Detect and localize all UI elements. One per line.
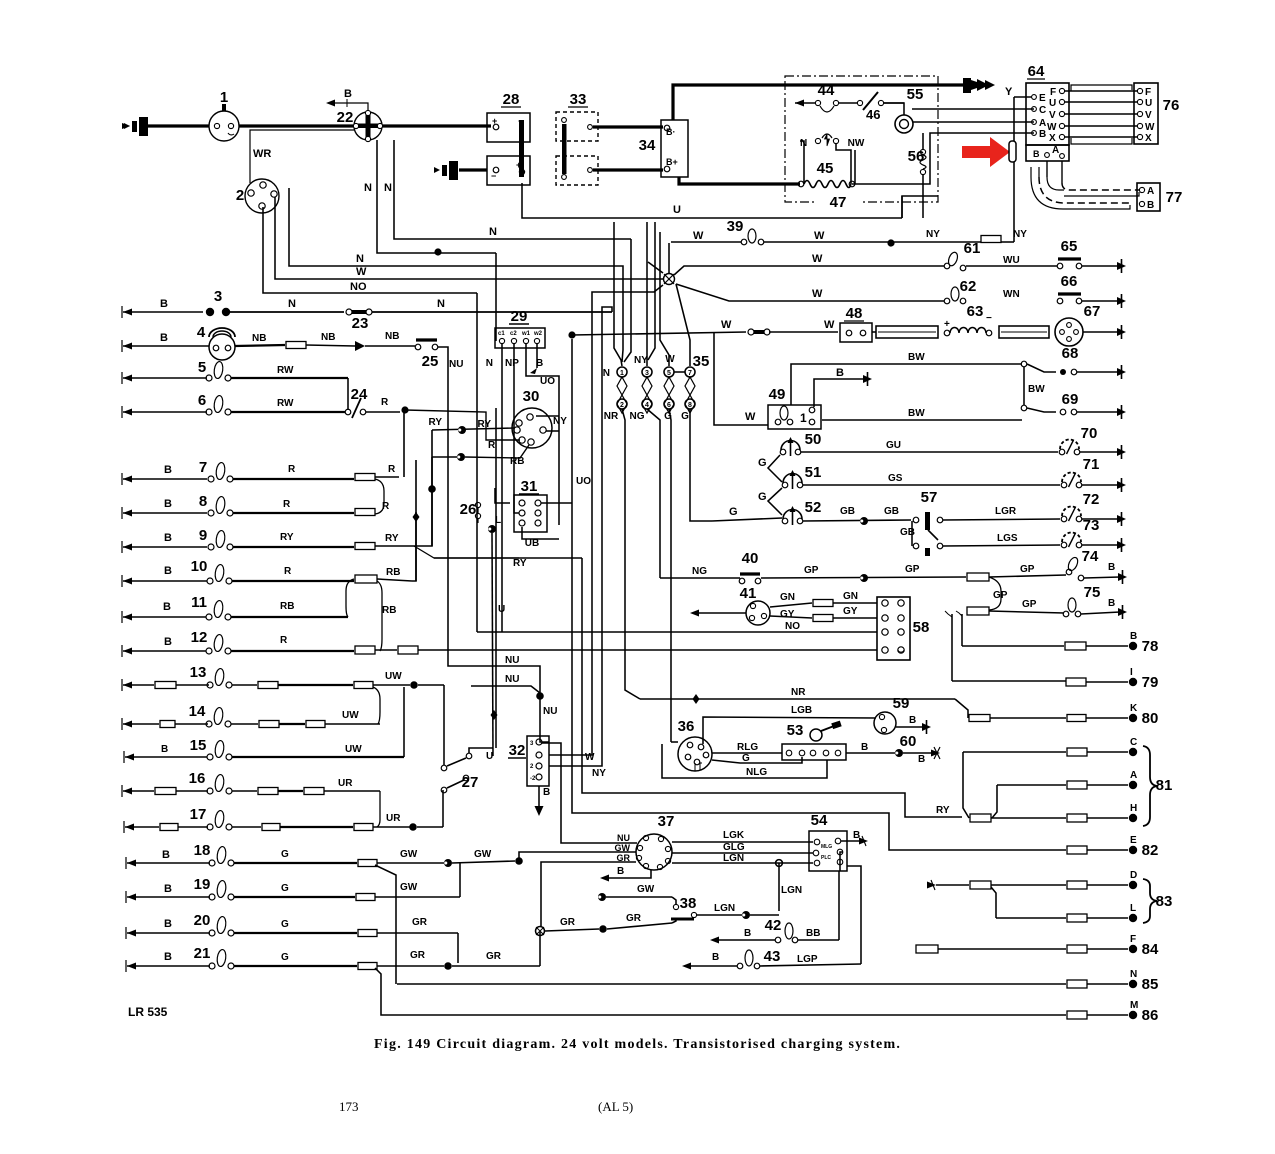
svg-text:W: W (814, 230, 825, 242)
svg-text:B: B (160, 298, 168, 310)
svg-text:2: 2 (236, 187, 244, 204)
svg-text:N: N (288, 298, 296, 310)
svg-text:B: B (163, 601, 171, 613)
svg-text:R: R (283, 499, 291, 510)
svg-text:W: W (585, 752, 595, 763)
terminal feed arrow battery lower (434, 167, 440, 173)
L terminal (488, 525, 496, 533)
svg-text:V: V (1049, 110, 1056, 121)
svg-text:c1: c1 (498, 331, 505, 337)
svg-text:UR: UR (386, 813, 401, 824)
wire RY to 30 (432, 428, 514, 430)
svg-text:RLG: RLG (737, 742, 758, 753)
row 81 C (963, 751, 1066, 753)
svg-text:36: 36 (678, 718, 695, 735)
svg-text:A: A (1130, 770, 1137, 781)
wire GP hooks (945, 611, 952, 617)
svg-text:6: 6 (667, 402, 671, 409)
svg-text:WR: WR (253, 148, 271, 160)
svg-text:W: W (1145, 122, 1155, 133)
76 pin V (1137, 111, 1142, 116)
fuse 39 (741, 239, 747, 245)
svg-text:W: W (665, 354, 675, 365)
wire LGR (943, 519, 1060, 520)
svg-text:GP: GP (1020, 564, 1035, 575)
svg-text:NB: NB (385, 331, 399, 342)
svg-text:49: 49 (769, 386, 786, 403)
RY riser (414, 430, 432, 546)
svg-text:NW: NW (848, 138, 865, 149)
svg-text:70: 70 (1081, 425, 1098, 442)
svg-text:NR: NR (791, 687, 806, 698)
svg-text:66: 66 (1061, 273, 1078, 290)
svg-text:54: 54 (811, 812, 828, 829)
svg-text:B: B (617, 866, 624, 877)
svg-text:74: 74 (1082, 548, 1099, 565)
svg-text:GN: GN (843, 591, 858, 602)
svg-text:U: U (486, 751, 493, 762)
svg-text:NO: NO (350, 281, 367, 293)
wire R stub (405, 410, 520, 440)
svg-text:RW: RW (277, 365, 294, 376)
svg-text:14: 14 (189, 703, 206, 720)
feed arrow top right (963, 78, 971, 93)
wire w1 from 29 (526, 344, 559, 525)
svg-text:35: 35 (693, 353, 710, 370)
svg-text:RB: RB (382, 605, 396, 616)
svg-text:F: F (1130, 934, 1136, 945)
wire GR into 37 (541, 862, 636, 926)
svg-text:48: 48 (846, 305, 863, 322)
svg-text:W: W (1047, 122, 1057, 133)
fuse GP (967, 573, 989, 581)
svg-text:MLG: MLG (821, 844, 832, 850)
svg-text:BW: BW (908, 408, 925, 419)
svg-text:BW: BW (908, 352, 925, 363)
row20-21 GR link (457, 933, 459, 963)
wire U riser at 902 (901, 196, 903, 218)
svg-text:NU: NU (449, 359, 463, 370)
svg-text:NY: NY (553, 416, 567, 427)
svg-text:B: B (1039, 129, 1046, 140)
svg-text:GW: GW (474, 849, 492, 860)
wire BW lower (822, 419, 1022, 421)
svg-text:GU: GU (886, 440, 901, 451)
riser 17 to 27 (442, 790, 444, 827)
svg-text:X: X (1145, 133, 1152, 144)
fuse GP 75 (967, 607, 989, 615)
wire left riser 85 (375, 865, 396, 984)
row 15 lamp (125, 754, 134, 761)
wire NU vertical from 25 (448, 362, 540, 693)
svg-text:B: B (164, 464, 172, 476)
wire main feed to switch 1 (140, 124, 209, 127)
svg-text:GR: GR (560, 917, 576, 928)
svg-text:GY: GY (780, 609, 795, 620)
switch 46 (857, 100, 862, 105)
G wire down to 36 (669, 409, 671, 742)
36 bracket wiring (671, 741, 678, 743)
row 62: wire W (676, 284, 944, 301)
svg-text:D: D (1130, 870, 1137, 881)
svg-text:86: 86 (1142, 1007, 1159, 1024)
NG wire down to row 40 (647, 409, 660, 578)
svg-text:NU: NU (505, 655, 519, 666)
row18-19 GW link (459, 863, 461, 897)
harness connector 76 (1134, 83, 1158, 144)
svg-text:40: 40 (742, 550, 759, 567)
svg-text:B: B (543, 787, 550, 798)
svg-text:B: B (164, 565, 172, 577)
svg-text:41: 41 (740, 585, 757, 602)
svg-text:LGS: LGS (997, 533, 1018, 544)
svg-text:7: 7 (199, 459, 207, 476)
row 19 lamp (127, 894, 136, 901)
GP branch curve down (989, 577, 1001, 610)
svg-text:F: F (1145, 87, 1151, 98)
wire N vertical to 29 (495, 253, 497, 341)
svg-text:N: N (486, 358, 493, 369)
svg-text:15: 15 (190, 737, 207, 754)
svg-text:NU: NU (505, 674, 519, 685)
wire NU into 37 (542, 743, 637, 843)
link pair3-pair4 (674, 371, 685, 373)
svg-text:B: B (712, 952, 719, 963)
junction block 58 (877, 597, 910, 660)
wires 64 to 76 (1064, 90, 1138, 92)
svg-text:GP: GP (993, 590, 1008, 601)
76 pin X (1137, 134, 1142, 139)
svg-text:L: L (1130, 903, 1136, 914)
screened cable left (876, 326, 938, 338)
svg-text:R: R (284, 566, 292, 577)
row 81 H RY fuse (970, 814, 991, 822)
svg-text:RB: RB (280, 601, 294, 612)
svg-text:w1: w1 (521, 331, 531, 337)
row 80 fuses (969, 715, 990, 722)
svg-text:G: G (281, 849, 289, 860)
svg-text:NY: NY (592, 768, 606, 779)
wire W to 49 (714, 332, 768, 425)
U line riser right (902, 196, 938, 218)
svg-text:R: R (488, 440, 496, 451)
svg-text:LGB: LGB (791, 705, 812, 716)
76 pin F (1137, 88, 1142, 93)
svg-text:U: U (673, 204, 681, 216)
RB riser drop (431, 457, 433, 489)
svg-text:W: W (812, 288, 823, 300)
svg-text:39: 39 (727, 218, 744, 235)
svg-text:RY: RY (513, 558, 527, 569)
row 18 lamp (127, 860, 136, 867)
svg-text:W: W (812, 253, 823, 265)
svg-text:G: G (742, 753, 750, 764)
row10-11 link (346, 579, 354, 617)
svg-text:58: 58 (913, 619, 930, 636)
svg-text:13: 13 (190, 664, 207, 681)
svg-text:R: R (388, 464, 396, 475)
svg-text:GS: GS (888, 473, 903, 484)
wire GY (770, 616, 812, 618)
svg-text:81: 81 (1156, 777, 1173, 794)
wire GN (770, 603, 812, 607)
wire GU (801, 451, 1058, 453)
row 83 L (996, 917, 1066, 919)
svg-text:B: B (164, 636, 172, 648)
76 pin U (1137, 99, 1142, 104)
svg-text:10: 10 (191, 558, 208, 575)
svg-text:8: 8 (199, 493, 207, 510)
svg-text:5: 5 (198, 359, 206, 376)
row 6 lamp (123, 409, 132, 416)
wire 22 to battery 28 (382, 124, 491, 127)
svg-text:37: 37 (658, 813, 675, 830)
svg-text:GR: GR (412, 917, 428, 928)
svg-text:H: H (1130, 803, 1137, 814)
svg-text:NG: NG (630, 411, 645, 422)
row 86 (375, 968, 1066, 1015)
battery 28 link bar (519, 120, 524, 177)
wire BW top (791, 364, 1022, 405)
svg-text:LGN: LGN (723, 853, 744, 864)
svg-text:UW: UW (385, 671, 402, 682)
dashed wire 64B to 77B outline (1039, 177, 1130, 203)
wire NO long (477, 631, 877, 633)
wire 13 row to 27 (443, 685, 445, 765)
row 3 switch (123, 309, 132, 316)
svg-text:2: 2 (620, 402, 624, 409)
svg-text:U: U (1049, 98, 1056, 109)
svg-text:W: W (356, 266, 367, 278)
svg-text:59: 59 (893, 695, 910, 712)
BB riser to 54 (838, 871, 840, 940)
battery 28 lower (487, 156, 530, 185)
svg-text:11: 11 (191, 594, 207, 611)
svg-text:34: 34 (639, 137, 656, 154)
wire W to fuse (572, 332, 746, 335)
wire GS (803, 484, 1060, 486)
svg-text:53: 53 (787, 722, 804, 739)
svg-text:18: 18 (194, 842, 211, 859)
svg-text:GY: GY (843, 606, 858, 617)
row 21 lamp (127, 963, 136, 970)
wire UB long to 82 (572, 339, 930, 850)
svg-text:R: R (381, 397, 389, 408)
row 61: wire W (674, 266, 944, 275)
row 20 lamp (127, 930, 136, 937)
svg-text:57: 57 (921, 489, 938, 506)
svg-text:1: 1 (220, 89, 228, 106)
terminal feed arrow left (122, 123, 130, 129)
53 lever symbol (810, 729, 822, 741)
row7-row8 link (375, 479, 384, 514)
wire RY long to 81 rows (582, 558, 962, 817)
svg-text:UO: UO (540, 376, 555, 387)
svg-text:16: 16 (189, 770, 206, 787)
svg-text:29: 29 (511, 308, 528, 325)
svg-text:B: B (164, 951, 172, 963)
svg-text:NY: NY (926, 229, 940, 240)
wire LGN (672, 862, 813, 864)
row16-17 link (377, 791, 380, 827)
svg-text:G: G (729, 506, 738, 518)
svg-text:GR: GR (410, 950, 426, 961)
connector 77 (1137, 183, 1160, 211)
svg-text:12: 12 (191, 629, 208, 646)
wire 56 to U line (922, 175, 924, 218)
svg-text:G: G (281, 919, 289, 930)
svg-text:B: B (836, 367, 844, 379)
svg-text:C: C (1130, 737, 1137, 748)
svg-text:G: G (281, 952, 289, 963)
wire RB to 30 (432, 456, 460, 458)
row 14 lamp (123, 721, 132, 728)
wire 55 to 64 C (913, 121, 1034, 123)
wire 33 to 34 lower (593, 168, 663, 171)
64 pin C (1032, 107, 1037, 112)
svg-text:NR: NR (604, 411, 619, 422)
svg-text:50: 50 (805, 431, 822, 448)
svg-text:C: C (1039, 105, 1046, 116)
svg-text:44: 44 (818, 82, 835, 99)
row 85 (397, 983, 1066, 985)
svg-text:GB: GB (884, 506, 899, 517)
svg-text:B: B (909, 715, 916, 726)
NR wire down to relay row (622, 409, 640, 699)
svg-text:RY: RY (385, 533, 399, 544)
svg-text:A: A (1039, 118, 1046, 129)
svg-text:52: 52 (805, 499, 822, 516)
svg-text:B: B (861, 742, 868, 753)
svg-text:R: R (382, 501, 390, 512)
wire LGS (943, 545, 1060, 546)
svg-text:83: 83 (1156, 893, 1173, 910)
svg-text:79: 79 (1142, 674, 1159, 691)
svg-text:w2: w2 (533, 331, 543, 337)
svg-text:B: B (1033, 149, 1040, 159)
wire B from 54 (841, 840, 862, 842)
row 11 lamp (123, 614, 132, 621)
svg-text:GLG: GLG (723, 842, 745, 853)
31 wiring (495, 488, 510, 503)
svg-text:67: 67 (1084, 303, 1101, 320)
row 8 lamp (123, 510, 132, 517)
LGP riser to 54 (847, 866, 861, 964)
svg-text:B: B (344, 88, 352, 100)
svg-text:G: G (281, 883, 289, 894)
svg-text:NY: NY (634, 355, 648, 366)
svg-text:B: B (1108, 562, 1115, 573)
wire G from cluster (712, 518, 782, 521)
svg-text:RY: RY (936, 805, 950, 816)
svg-text:X: X (1049, 133, 1056, 144)
svg-text:60: 60 (900, 733, 917, 750)
64 pin E (1032, 95, 1037, 100)
svg-text:4: 4 (645, 402, 649, 409)
svg-text:R: R (280, 635, 288, 646)
svg-text:GW: GW (400, 882, 418, 893)
wire NG (660, 577, 740, 579)
svg-text:U: U (498, 604, 505, 615)
svg-text:77: 77 (1166, 189, 1183, 206)
svg-text:B: B (1147, 200, 1154, 211)
svg-text:E: E (1039, 93, 1046, 104)
BW link vertical (1023, 367, 1025, 405)
wire WR from lamp 2 up to 22 (250, 130, 354, 183)
svg-text:82: 82 (1142, 842, 1159, 859)
wire N from 22 down (377, 140, 496, 253)
svg-text:LGN: LGN (714, 903, 735, 914)
svg-text:19: 19 (194, 876, 211, 893)
row 78 (961, 614, 963, 646)
svg-text:LGP: LGP (797, 954, 818, 965)
svg-text:PLC: PLC (821, 855, 831, 861)
wire 44 to 64 E via top (854, 150, 856, 184)
wire B from 53 (846, 752, 896, 754)
wires from regulator to 64 (912, 108, 1034, 110)
wire switch1 to switch22 (239, 124, 354, 127)
wire Y vertical (1013, 97, 1015, 141)
svg-text:NLG: NLG (746, 767, 767, 778)
svg-text:+: + (516, 160, 521, 170)
svg-text:G: G (758, 457, 767, 469)
lamp 35 pair4 top (685, 367, 695, 377)
svg-text:M: M (1130, 1000, 1138, 1011)
row 83 D (927, 882, 936, 889)
svg-text:78: 78 (1142, 638, 1159, 655)
svg-text:K: K (1130, 703, 1138, 714)
wire GP (761, 577, 966, 578)
svg-text:B: B (164, 883, 172, 895)
lamp 35 pair1 element (617, 377, 627, 413)
wire GB (803, 520, 911, 521)
svg-text:B: B (1108, 598, 1115, 609)
svg-text:61: 61 (964, 240, 981, 257)
connector 33 link bar (562, 124, 567, 174)
svg-text:RY: RY (428, 417, 442, 428)
svg-text:33: 33 (570, 91, 587, 108)
svg-text:UR: UR (338, 778, 353, 789)
row 4 horn (123, 343, 132, 350)
bracket 81 (1143, 746, 1157, 826)
GW row under 37 (598, 893, 606, 901)
svg-text:G: G (681, 411, 689, 422)
svg-text:RB: RB (386, 567, 400, 578)
wire LGK (672, 841, 813, 843)
wire row 12 extension (418, 649, 877, 651)
svg-text:42: 42 (765, 917, 782, 934)
wire NY vertical (549, 307, 612, 766)
row 7 lamp (123, 476, 132, 483)
svg-text:71: 71 (1083, 456, 1100, 473)
svg-text:32: 32 (509, 742, 526, 759)
screened cable right (999, 326, 1049, 338)
svg-text:38: 38 (680, 895, 697, 912)
svg-text:NG: NG (692, 566, 707, 577)
row 10 lamp (123, 578, 132, 585)
svg-text:68: 68 (1062, 345, 1079, 362)
RB riser (412, 460, 416, 581)
row 12 lamp (123, 648, 132, 655)
svg-text:B: B (744, 928, 751, 939)
wire 34 B to top feed (673, 85, 966, 120)
svg-text:LR 535: LR 535 (128, 1005, 168, 1019)
riser 83 (991, 887, 996, 918)
R riser from row7 to 24 (403, 412, 405, 477)
svg-text:N: N (603, 368, 610, 379)
svg-text:30: 30 (523, 388, 540, 405)
svg-text:65: 65 (1061, 238, 1078, 255)
